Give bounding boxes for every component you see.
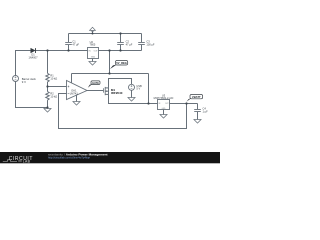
svg-text:47 µF: 47 µF (126, 42, 133, 46)
svg-text:5V_REG: 5V_REG (116, 61, 127, 65)
wire battery net (170, 103, 198, 105)
footer bar (0, 152, 220, 163)
op-amp OA1 (67, 81, 88, 102)
svg-text:47 µF: 47 µF (72, 42, 79, 46)
ground G2 (73, 102, 80, 106)
net label 5V_REG (110, 61, 128, 70)
wire R2 bottom (47, 100, 49, 108)
resistor R1 (46, 73, 49, 82)
wire op-amp inverting feedback loop (59, 94, 187, 129)
svg-text:GATE: GATE (92, 82, 99, 85)
vcc arrow (90, 27, 96, 33)
op-amp V+ stub (71, 74, 73, 84)
wire divider drop (47, 51, 49, 74)
svg-text:LM741: LM741 (70, 91, 79, 95)
net label VBATT (186, 95, 202, 102)
ground G6 (194, 120, 201, 124)
svg-text:1N4007: 1N4007 (28, 55, 38, 59)
component value labels (22, 39, 208, 113)
rail top 5V (69, 33, 142, 35)
svg-text:100 µF: 100 µF (146, 42, 155, 46)
capacitor C4 (194, 104, 201, 120)
svg-text:10 kΩ: 10 kΩ (50, 76, 57, 80)
svg-text:7805: 7805 (90, 43, 96, 47)
credits text (48, 152, 108, 159)
wire 5V drop to op-amp rail (109, 51, 111, 74)
ground G5 (160, 115, 167, 119)
wire diode to regulator (36, 50, 88, 52)
wire op-amp output to gate (87, 90, 104, 92)
wire 5V down to charger input (148, 74, 150, 104)
capacitor C2 (117, 34, 124, 51)
wire usb to mosfet drain (109, 79, 132, 88)
svg-text:MCP73831-2-ACI: MCP73831-2-ACI (154, 97, 174, 100)
wire op-amp V+ rail to U3 feed (72, 73, 149, 75)
label M1 (111, 88, 123, 95)
svg-text:OUT: OUT (165, 103, 169, 105)
circuitlab logo (3, 156, 33, 164)
svg-text:LAB: LAB (23, 160, 31, 164)
wire source bottom return (16, 81, 48, 107)
capacitor C1 (65, 34, 72, 51)
svg-text:10 kΩ: 10 kΩ (50, 95, 57, 99)
junction dots (46, 32, 187, 108)
ground G3 (89, 62, 96, 66)
svg-text:http://circuitlab.com/c/9mn4w7: http://circuitlab.com/c/9mn4w7p4kqe (48, 156, 91, 160)
wire mosfet source to charger (109, 94, 158, 103)
wire divider tap to op-amp + (48, 86, 67, 88)
wire R1 to R2 (47, 82, 49, 92)
source V1 barrel jack (13, 76, 19, 82)
source V2 usb (129, 84, 135, 97)
svg-text:9 V: 9 V (22, 80, 26, 84)
svg-text:5 V: 5 V (136, 87, 140, 91)
capacitor C3 (138, 34, 145, 51)
svg-text:1 µF: 1 µF (203, 110, 209, 114)
regulator pin names (89, 50, 99, 58)
svg-text:VBATT: VBATT (192, 95, 201, 99)
charger U3 MCP73831 (158, 100, 170, 115)
svg-text:GND: GND (91, 57, 96, 59)
wire barrel jack to diode (16, 51, 31, 76)
charger pin names (159, 103, 169, 110)
wire regulator out to C3 (99, 50, 142, 52)
svg-text:IRF9540: IRF9540 (111, 91, 123, 95)
resistor R2 (46, 92, 49, 101)
mosfet M1 (104, 87, 109, 95)
diode D1 (31, 48, 36, 53)
net label GATE (88, 81, 100, 88)
ground G1 (44, 109, 51, 113)
regulator U2 7805 (88, 48, 99, 62)
ground G4 (128, 98, 135, 102)
